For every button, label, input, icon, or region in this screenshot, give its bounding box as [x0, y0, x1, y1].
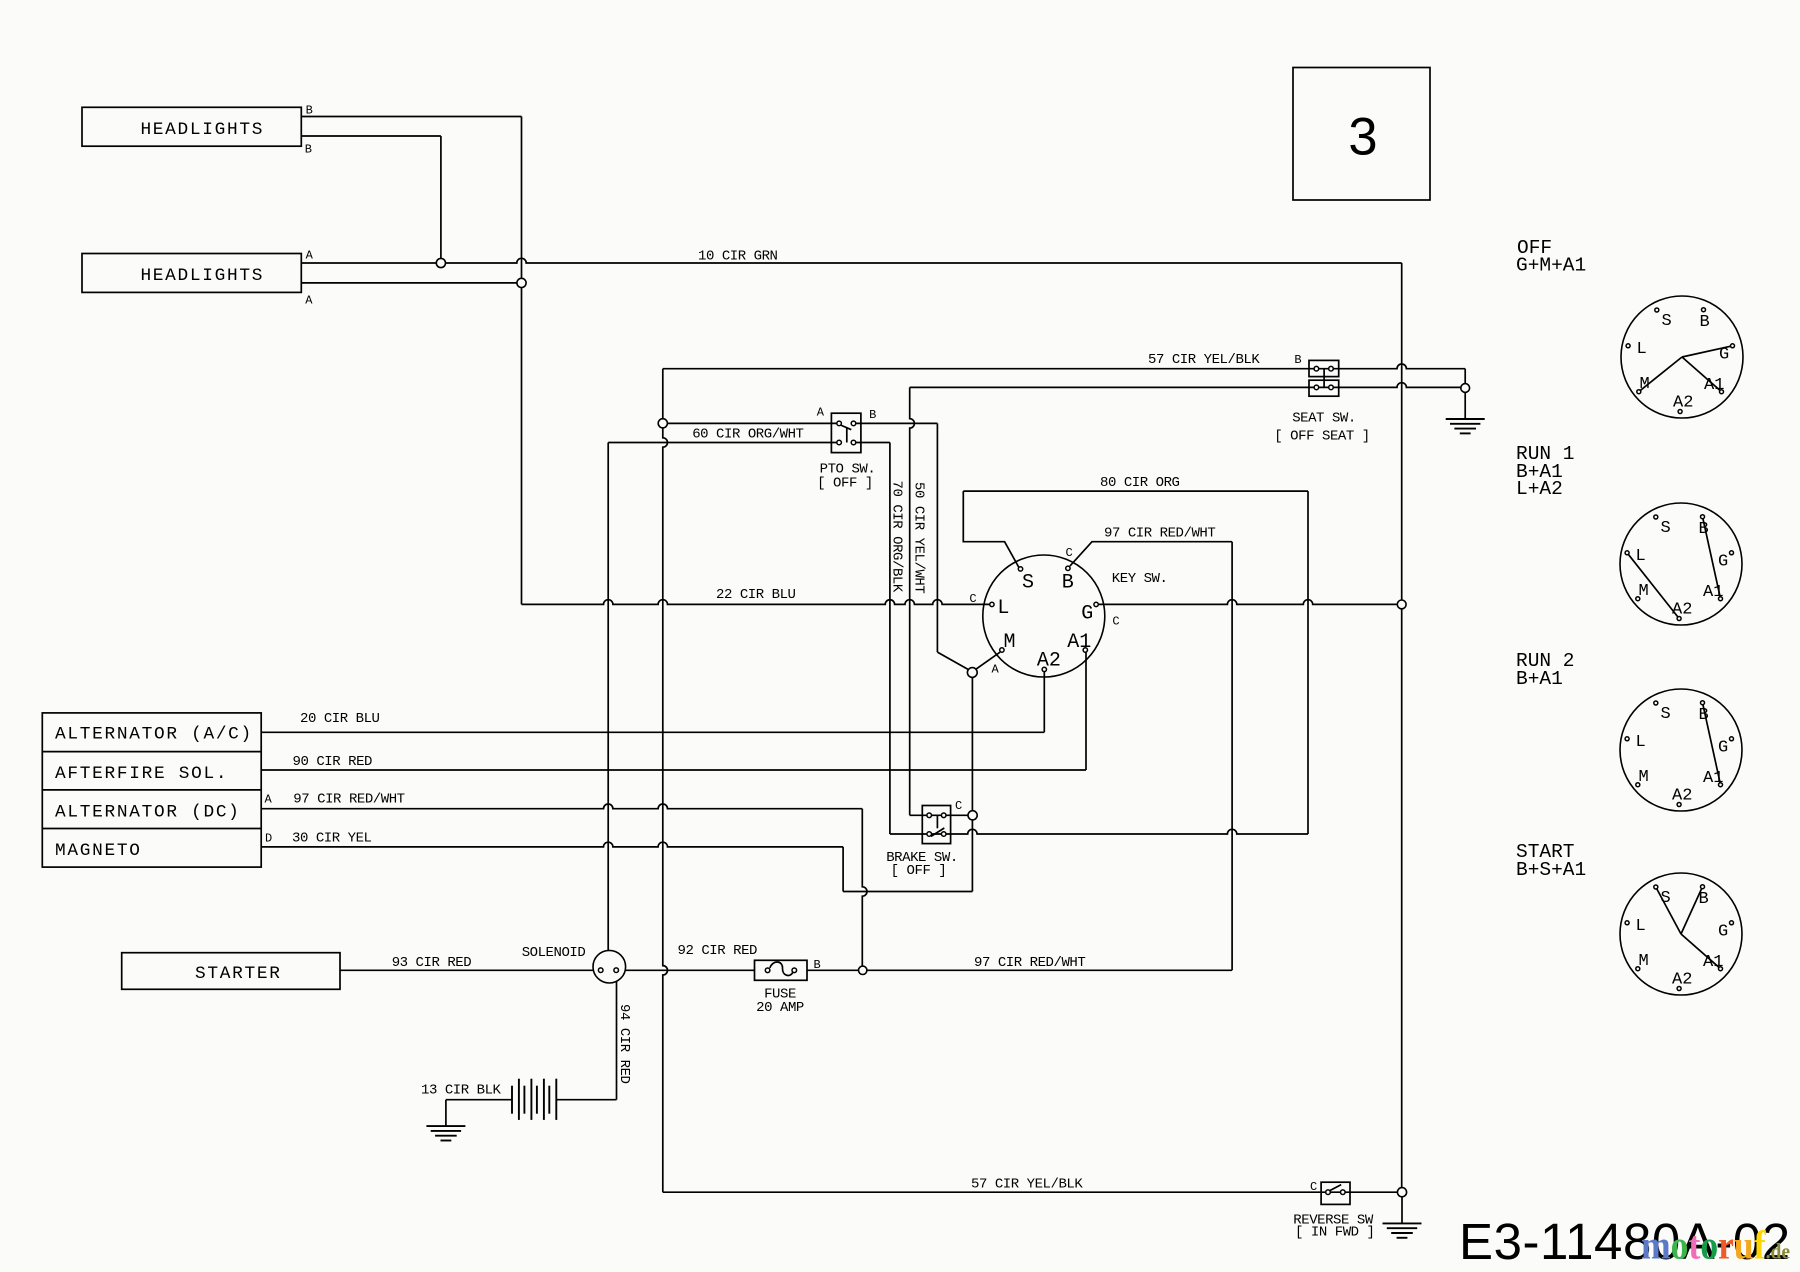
svg-text:SOLENOID: SOLENOID	[522, 945, 586, 961]
svg-text:A2: A2	[1673, 394, 1693, 413]
svg-text:22 CIR BLU: 22 CIR BLU	[716, 587, 796, 603]
svg-text:AFTERFIRE SOL.: AFTERFIRE SOL.	[55, 764, 228, 784]
key switch pin S	[1018, 567, 1022, 571]
svg-text:G: G	[1081, 602, 1093, 625]
svg-text:B: B	[305, 142, 312, 156]
wire diagonal into M junction	[937, 652, 968, 670]
svg-text:B+S+A1: B+S+A1	[1516, 859, 1586, 881]
svg-text:S: S	[1661, 519, 1671, 538]
svg-text:MAGNETO: MAGNETO	[55, 841, 142, 861]
svg-text:93 CIR RED: 93 CIR RED	[392, 955, 472, 971]
svg-text:B: B	[1699, 890, 1709, 909]
node headlight B/A junction 1	[436, 258, 445, 267]
wire PTO lower right	[854, 442, 890, 444]
svg-text:[ OFF SEAT ]: [ OFF SEAT ]	[1274, 429, 1369, 445]
ground seat switch	[1446, 419, 1485, 433]
wire vertical branch from PTO junction down to reverse switch wire	[663, 428, 668, 1192]
wire headlight-2 pin A bottom	[301, 282, 517, 284]
svg-text:90 CIR RED: 90 CIR RED	[293, 754, 373, 770]
watermark motoruf.de	[1641, 1223, 1790, 1267]
svg-text:A2: A2	[1037, 649, 1061, 672]
wire 92 CIR RED solenoid to fuse	[625, 969, 754, 971]
wire brake switch lower to 80 CIR ORG vertical	[890, 829, 1308, 834]
svg-text:B: B	[306, 103, 313, 117]
ground reverse switch	[1383, 1223, 1422, 1237]
svg-text:HEADLIGHTS: HEADLIGHTS	[140, 266, 264, 286]
wire 97 CIR RED/WHT from key switch B	[1070, 542, 1232, 566]
wire vertical headlights feed down to 22 CIR BLU	[521, 288, 523, 605]
svg-text:A2: A2	[1672, 787, 1692, 806]
key position diagram RUN 2	[1620, 689, 1742, 811]
svg-text:97 CIR RED/WHT: 97 CIR RED/WHT	[1104, 526, 1215, 542]
svg-text:20 CIR BLU: 20 CIR BLU	[300, 711, 380, 727]
wire 10 CIR GRN	[446, 258, 1402, 263]
node seat switch ground junction	[1461, 384, 1470, 393]
svg-text:G: G	[1718, 923, 1728, 942]
wire 22 CIR BLU to key switch L	[522, 600, 990, 605]
wire key switch G to main ground bus node	[1098, 600, 1397, 605]
svg-text:A: A	[306, 249, 314, 263]
wire seat switch lower to ground junction	[910, 383, 1461, 388]
svg-text:M: M	[1639, 582, 1649, 601]
wire key switch M diagonal to junction A	[976, 652, 1000, 669]
svg-text:A: A	[817, 406, 825, 420]
svg-text:A1: A1	[1067, 631, 1091, 654]
svg-text:HEADLIGHTS: HEADLIGHTS	[140, 120, 264, 140]
svg-text:M: M	[1640, 375, 1650, 394]
svg-text:B: B	[1700, 313, 1710, 332]
svg-text:B+A1: B+A1	[1516, 668, 1563, 690]
wire 60 CIR ORG/WHT to PTO switch A	[667, 422, 839, 424]
svg-text:B: B	[1294, 353, 1301, 367]
alternator / magneto box stack	[42, 713, 261, 867]
wire 30 CIR YEL vertical	[842, 847, 844, 892]
wire 93 CIR RED starter to solenoid	[340, 969, 593, 971]
wire 97 CIR RED/WHT vertical to fuse node	[1231, 542, 1233, 971]
wire reverse junction to ground	[1401, 1197, 1403, 1224]
wire 30 CIR YEL across to brake junction	[843, 891, 972, 893]
svg-text:L: L	[1637, 340, 1647, 359]
wire vertical from headlight-1 B to junction on A wire	[521, 117, 523, 279]
wire 97 CIR RED/WHT alternator DC	[261, 804, 862, 809]
svg-text:C: C	[969, 592, 976, 606]
key position diagram RUN 1	[1620, 503, 1742, 625]
svg-text:60 CIR ORG/WHT: 60 CIR ORG/WHT	[692, 427, 803, 443]
svg-text:M: M	[1639, 952, 1649, 971]
svg-text:S: S	[1022, 572, 1034, 595]
svg-text:C: C	[955, 799, 962, 813]
key switch pin A2	[1042, 667, 1046, 671]
wire seat ground junction drop	[1464, 369, 1466, 384]
sheet number box 3	[1293, 68, 1430, 201]
svg-text:L: L	[1636, 733, 1646, 752]
key position diagram OFF	[1621, 296, 1743, 418]
wire alternator DC down to fuse node	[862, 809, 867, 966]
svg-text:[ OFF ]: [ OFF ]	[891, 863, 947, 879]
wire 80 CIR ORG	[963, 490, 1308, 492]
svg-text:S: S	[1661, 889, 1671, 908]
svg-text:ALTERNATOR (DC): ALTERNATOR (DC)	[55, 803, 241, 823]
svg-text:L: L	[1636, 547, 1646, 566]
svg-text:L: L	[1636, 917, 1646, 936]
key switch pin B	[1066, 566, 1070, 570]
wire 80 CIR ORG vertical	[1307, 491, 1309, 834]
wire 90 CIR RED afterfire sol. to A1	[261, 769, 1086, 771]
reverse switch	[1321, 1182, 1350, 1204]
node 60 CIR ORG/WHT junction	[658, 419, 667, 428]
wire PTO B down toward key switch M junction	[936, 423, 938, 652]
svg-text:C: C	[1310, 1180, 1317, 1194]
wire fuse to junction	[807, 969, 858, 971]
svg-text:80 CIR ORG: 80 CIR ORG	[1100, 475, 1180, 491]
wire key switch A2 down	[1043, 672, 1045, 732]
wire headlight-2 pin A top	[301, 262, 436, 264]
wire seat ground stub	[1464, 393, 1466, 419]
wire vertical 57YEL/BLK branch upper	[662, 369, 664, 419]
svg-text:A1: A1	[1703, 769, 1723, 788]
seat switch	[1309, 360, 1339, 376]
PTO switch	[831, 413, 861, 452]
svg-text:A2: A2	[1672, 601, 1692, 620]
svg-text:SEAT SW.: SEAT SW.	[1292, 411, 1356, 427]
svg-text:57 CIR YEL/BLK: 57 CIR YEL/BLK	[971, 1177, 1083, 1193]
wire key switch S lead	[963, 491, 1020, 569]
svg-text:M: M	[1639, 768, 1649, 787]
svg-text:M: M	[1004, 631, 1016, 654]
svg-text:S: S	[1661, 705, 1671, 724]
solenoid	[593, 950, 626, 983]
wire 97 CIR RED/WHT junction to vertical	[867, 969, 1232, 971]
wire 13 CIR BLK to ground	[445, 1100, 447, 1126]
svg-text:70 CIR ORG/BLK: 70 CIR ORG/BLK	[889, 481, 905, 593]
node key switch M junction A	[967, 668, 977, 678]
node G bus junction	[1397, 600, 1406, 609]
key switch pin L	[990, 602, 994, 606]
node headlight B/A junction 2	[517, 278, 526, 287]
wire main right bus vertical lower	[1401, 609, 1403, 1188]
svg-text:A1: A1	[1703, 583, 1723, 602]
wire main right bus vertical upper	[1401, 263, 1403, 600]
svg-text:ALTERNATOR (A/C): ALTERNATOR (A/C)	[55, 725, 253, 745]
wire vertical from headlight-1 B to junction	[440, 136, 442, 258]
key switch body	[983, 555, 1105, 677]
svg-text:57 CIR YEL/BLK: 57 CIR YEL/BLK	[1148, 352, 1260, 368]
svg-text:20 AMP: 20 AMP	[756, 1000, 804, 1016]
svg-text:3: 3	[1348, 108, 1377, 167]
svg-text:[ IN FWD ]: [ IN FWD ]	[1295, 1225, 1375, 1241]
node fuse output junction	[859, 966, 867, 974]
svg-text:A2: A2	[1672, 971, 1692, 990]
wire key switch A1 down	[1085, 652, 1087, 770]
wire 60/70 branch down to solenoid	[607, 443, 609, 951]
wire 57 CIR YEL/BLK to seat switch	[663, 364, 1465, 369]
svg-text:STARTER: STARTER	[195, 964, 282, 984]
node reverse switch junction	[1397, 1188, 1406, 1197]
svg-text:30 CIR YEL: 30 CIR YEL	[292, 831, 372, 847]
svg-text:A: A	[265, 792, 273, 806]
battery	[512, 1079, 556, 1120]
headlights box 2	[82, 254, 301, 293]
svg-text:D: D	[265, 832, 272, 846]
svg-text:A: A	[305, 294, 313, 308]
svg-text:10 CIR GRN: 10 CIR GRN	[698, 249, 778, 265]
svg-text:B: B	[869, 408, 876, 422]
svg-text:L: L	[997, 597, 1009, 620]
svg-text:G: G	[1719, 346, 1729, 365]
svg-text:50 CIR YEL/WHT: 50 CIR YEL/WHT	[911, 482, 927, 593]
wire 20 CIR BLU alternator A/C to A2	[261, 731, 1044, 733]
fuse F1 20A	[755, 960, 808, 980]
svg-text:A: A	[992, 662, 1000, 676]
svg-text:L+A2: L+A2	[1516, 478, 1563, 500]
wire up to brake junction	[971, 820, 973, 891]
key switch pin G	[1094, 602, 1098, 606]
wire 57 CIR YEL/BLK bottom to reverse switch	[663, 1191, 1398, 1193]
starter box	[122, 953, 340, 990]
svg-text:97 CIR RED/WHT: 97 CIR RED/WHT	[293, 791, 404, 807]
key switch pin M	[1000, 648, 1004, 652]
svg-text:G+M+A1: G+M+A1	[1516, 255, 1586, 277]
wire PTO switch B output	[854, 422, 938, 424]
svg-text:B: B	[814, 958, 821, 972]
node brake switch C junction	[968, 811, 977, 820]
wire 50 CIR YEL/WHT into brake switch C junction	[910, 814, 968, 816]
svg-text:B: B	[1699, 706, 1709, 725]
wire battery positive to 94 CIR RED	[556, 1099, 616, 1101]
svg-text:G: G	[1718, 739, 1728, 758]
svg-text:13 CIR BLK: 13 CIR BLK	[421, 1082, 502, 1098]
svg-text:97 CIR RED/WHT: 97 CIR RED/WHT	[974, 955, 1085, 971]
wire 30 CIR YEL magneto	[261, 842, 843, 847]
wire 13 CIR BLK battery negative	[446, 1099, 512, 1101]
wire 50 CIR YEL/WHT vertical	[910, 387, 915, 815]
svg-text:G: G	[1718, 553, 1728, 572]
svg-text:A1: A1	[1704, 376, 1724, 395]
svg-text:C: C	[1066, 546, 1073, 560]
svg-text:B: B	[1699, 520, 1709, 539]
svg-text:S: S	[1662, 312, 1672, 331]
wire junction A down to brake junction	[971, 677, 973, 810]
brake switch	[922, 806, 950, 844]
svg-text:B: B	[1062, 572, 1074, 595]
svg-text:[ OFF ]: [ OFF ]	[817, 475, 873, 491]
key switch pin A1	[1083, 648, 1087, 652]
wire 70 CIR ORG/BLK vertical down to brake switch	[889, 443, 891, 835]
ground battery	[426, 1126, 465, 1140]
wire headlight-1 pin B top	[301, 116, 521, 118]
wire 94 CIR RED solenoid to battery	[616, 981, 618, 1099]
svg-text:94 CIR RED: 94 CIR RED	[616, 1004, 632, 1084]
wire headlight-1 pin B bottom	[301, 135, 441, 137]
svg-text:C: C	[1112, 615, 1119, 629]
key position diagram START	[1620, 873, 1742, 995]
svg-text:A1: A1	[1703, 953, 1723, 972]
headlights box 1	[82, 107, 301, 146]
svg-text:KEY SW.: KEY SW.	[1112, 571, 1168, 587]
svg-text:92 CIR RED: 92 CIR RED	[678, 943, 758, 959]
wire 70 CIR ORG/BLK from PTO lower left	[608, 442, 839, 444]
